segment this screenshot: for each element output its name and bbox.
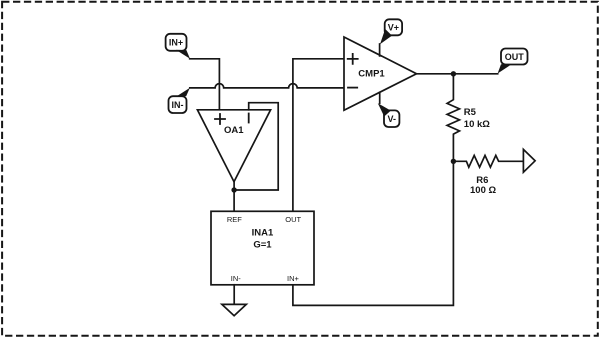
junction at OA1 output <box>231 187 236 192</box>
resistor R6 <box>453 155 523 195</box>
svg-text:IN-: IN- <box>231 274 242 283</box>
svg-text:V+: V+ <box>388 23 399 33</box>
svg-text:IN-: IN- <box>172 100 184 110</box>
op-amp OA1 <box>197 110 270 182</box>
resistor R5 <box>447 74 490 162</box>
junction R5 / R6 <box>451 159 456 164</box>
wire IN- to CMP1 inverting input (with hops) <box>190 84 344 88</box>
svg-text:10 kΩ: 10 kΩ <box>464 119 490 130</box>
ground <box>222 304 246 315</box>
wire OA1 feedback loop <box>234 103 278 190</box>
wire V- stub to CMP1 <box>379 92 381 103</box>
comparator CMP1 <box>344 37 417 110</box>
wire IN+ to OA1 noninverting input <box>190 59 220 110</box>
wire V+ stub to CMP1 <box>379 44 381 56</box>
net label V+ <box>380 19 402 44</box>
svg-text:IN+: IN+ <box>169 38 183 48</box>
svg-text:V-: V- <box>387 114 396 124</box>
svg-text:100 Ω: 100 Ω <box>470 185 496 196</box>
net label IN+ <box>166 34 190 59</box>
wire R5/R6 junction to INA1 IN+ <box>293 161 454 305</box>
svg-text:REF: REF <box>227 215 242 224</box>
svg-text:OUT: OUT <box>285 215 301 224</box>
wire INA1 IN- to ground <box>233 285 235 305</box>
port arrow at R6 output <box>523 149 535 172</box>
wire CMP1 noninverting input to INA1 OUT <box>293 59 344 212</box>
svg-text:INA1: INA1 <box>252 228 274 239</box>
junction at CMP1 output / R5 top <box>451 71 456 76</box>
wire OA1 output to INA1 REF <box>233 182 235 212</box>
net label V- <box>378 103 400 127</box>
net label IN- <box>169 88 190 113</box>
svg-text:G=1: G=1 <box>253 240 272 251</box>
wire CMP1 output to OUT label and R5 <box>417 73 498 75</box>
net label OUT <box>498 49 528 74</box>
svg-text:IN+: IN+ <box>287 274 300 283</box>
svg-text:OA1: OA1 <box>224 125 244 136</box>
svg-text:R5: R5 <box>464 107 477 118</box>
IC INA1 <box>211 211 314 284</box>
svg-text:OUT: OUT <box>505 52 525 62</box>
svg-text:CMP1: CMP1 <box>358 69 385 80</box>
